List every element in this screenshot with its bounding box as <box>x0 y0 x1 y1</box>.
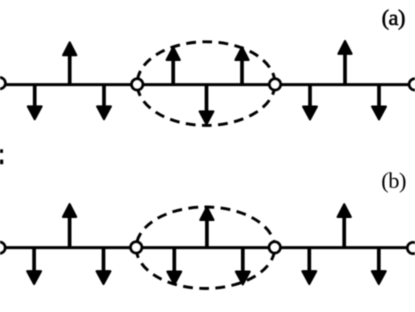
spin down 1b <box>27 248 41 284</box>
domain wall circle b1 <box>131 242 142 253</box>
spin up 8b <box>338 204 351 247</box>
spin up 2b <box>63 204 76 248</box>
spin down 4b <box>167 248 181 285</box>
spin up 6a <box>235 47 248 84</box>
spin down 7a <box>303 85 317 120</box>
domain wall circle b0 (left edge) <box>0 242 5 253</box>
chain (a) <box>0 41 415 125</box>
spin down 3a <box>97 85 111 120</box>
dashed ellipse a <box>137 42 275 126</box>
spin down 6b <box>236 248 250 285</box>
edge text fragment <box>0 149 3 164</box>
domain wall circle a1 <box>132 79 143 90</box>
spin down 5a <box>200 85 214 125</box>
spin down 3b <box>97 248 111 284</box>
wire b <box>0 246 415 249</box>
spin down 9b <box>372 248 386 284</box>
spin down 7b <box>302 248 316 284</box>
wire a <box>0 83 415 86</box>
spin up 2a <box>63 42 76 84</box>
label (b) <box>381 170 406 192</box>
domain wall circle b2 <box>269 242 280 253</box>
spin up 8a <box>338 41 351 85</box>
spin up 4a <box>167 47 180 84</box>
dashed ellipse b <box>136 207 275 289</box>
domain wall circle b3 (right edge) <box>407 242 415 253</box>
spin up 5b <box>200 207 213 247</box>
label (a) <box>382 7 405 29</box>
domain wall circle a3 (right edge) <box>409 79 415 90</box>
domain wall circle a0 (left edge) <box>0 78 5 89</box>
domain wall circle a2 <box>269 79 280 90</box>
spin down 1a <box>28 85 42 120</box>
chain (b) <box>0 204 415 288</box>
spin down 9a <box>372 85 386 120</box>
